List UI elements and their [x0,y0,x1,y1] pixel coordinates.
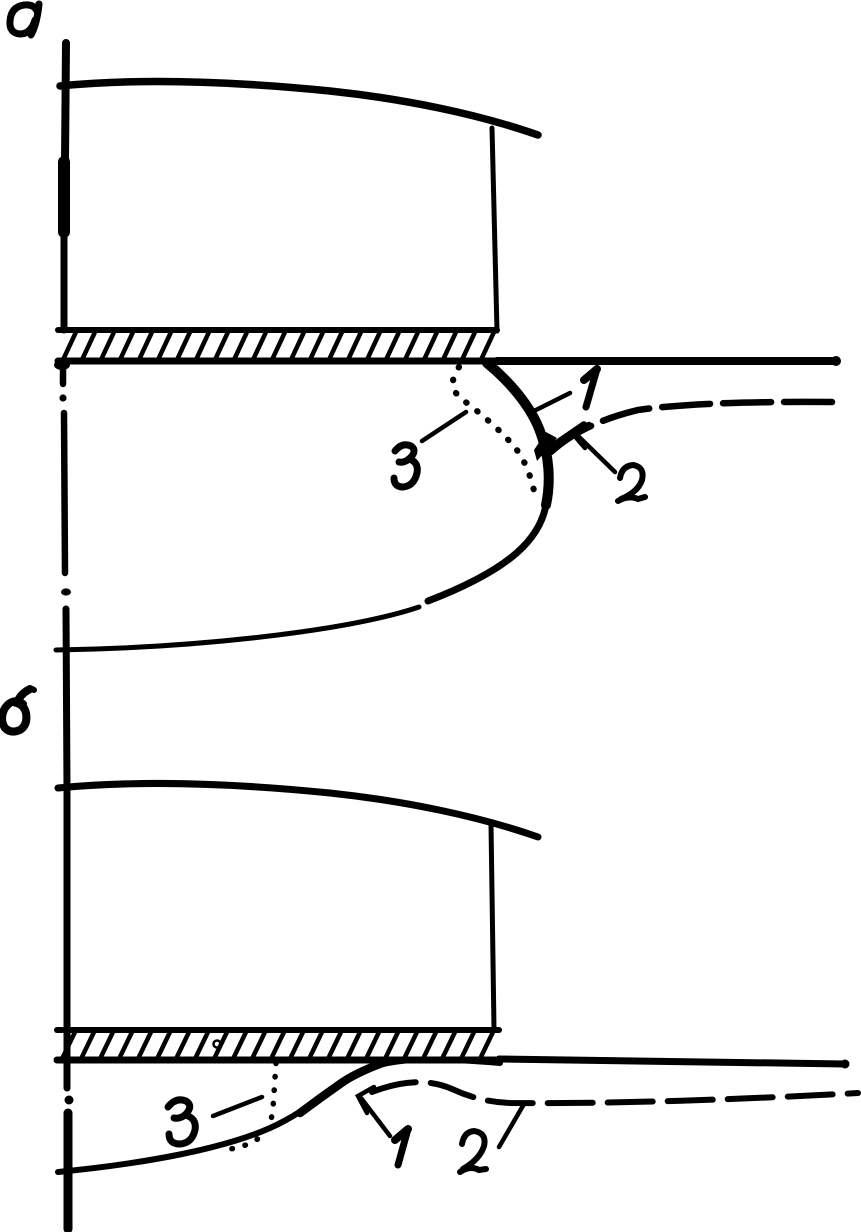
fig b: label 2 [460,1131,486,1172]
fig b: label 1 [395,1129,408,1165]
fig b: nozzle exit vertical line [491,824,494,1029]
fig b: wall-level horizontal line to the right [499,1059,845,1064]
fig a: label 1 [584,369,597,407]
fig a: wall-level horizontal line to the right [497,357,836,365]
fig a: curve 1 solid jet boundary (bold bulge) [487,363,549,505]
fig a: leader line of label 2 [575,433,615,472]
fig a: beak overlap of curve2 onto curve1 [534,432,557,461]
label б (fig b) [2,689,34,732]
fig a: label 2 [618,465,645,501]
label а (fig a) [10,4,39,35]
fig a: hatched wall [58,330,503,362]
fig a: upper jet boundary curve [60,81,538,135]
axis centerline (fig a + fig b, dash-dot vertical) [54,43,74,1229]
fig a: curve 1 thin tail to axis [56,607,419,650]
fig b: label 3 [168,1100,195,1144]
fig b: curve 1 solid S-shaped boundary [58,1059,500,1172]
fig a: dotted curve 3 [453,367,536,501]
fig b: dashed curve 2 [372,1082,858,1103]
fig b: hatched wall [57,1030,499,1061]
fig b: upper jet boundary curve [58,783,538,837]
fig b: dotted curve 3 [220,1063,276,1150]
fig b: leader line of label 3 [213,1097,262,1116]
fig a: dashed curve 2 [551,402,832,452]
fig a: label 3 [394,445,417,487]
fig b: leader line of label 1 with arrow [361,1098,390,1136]
fig b: curve 1 bold section [300,1062,385,1113]
fig a: nozzle exit vertical line [492,128,497,331]
fig b: leader line of label 2 [499,1104,524,1147]
fig a: leader line of label 1 [534,393,570,411]
fig a: leader line of label 3 [422,412,466,441]
fig a: curve 1 mid section [428,505,546,601]
fig a: arrow of leader 2 on curve 2 start [573,424,589,448]
